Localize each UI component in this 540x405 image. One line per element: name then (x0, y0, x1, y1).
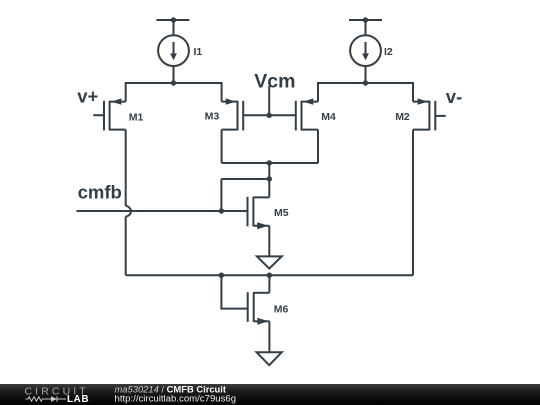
wire: right top rail (M4 drain to M2 drain) (318, 83, 413, 102)
current source I2 (350, 35, 381, 66)
svg-text:http://circuitlab.com/c79us6g: http://circuitlab.com/c79us6g (115, 393, 237, 404)
wire: M3 source down (221, 130, 223, 163)
wire: M5 drain (268, 179, 270, 197)
junction: common source node (267, 160, 272, 165)
svg-text:M4: M4 (321, 111, 336, 123)
junction: cmfb to M5 gate (219, 208, 224, 213)
current source I1 (158, 35, 189, 66)
wire: bottom rail (126, 274, 413, 276)
transistor M5 (NMOS) (248, 197, 270, 229)
wire: gate line M3-M4 (Vcm node) (243, 114, 296, 116)
power rail bar above I1 (156, 19, 189, 21)
transistor M3 (PMOS, mirrored) (222, 98, 244, 130)
svg-text:cmfb: cmfb (78, 182, 122, 203)
junction: I2 at right rail (363, 80, 368, 85)
wire: node down from common source (268, 163, 270, 179)
wire: Vcm drop (268, 86, 270, 115)
wire hop over cmfb (126, 206, 131, 216)
junction: I1 at top bar (171, 17, 176, 22)
svg-text:Vcm: Vcm (254, 71, 295, 93)
ground under M5 (257, 256, 282, 268)
svg-text:M5: M5 (274, 207, 289, 219)
ground under M6 (257, 352, 282, 365)
wire: I1 top stub (173, 20, 175, 35)
power rail bar above I2 (349, 19, 382, 21)
wire: left top rail (M1 drain to M3 drain) (126, 83, 222, 102)
wire: M6 source down (268, 321, 270, 352)
wire: horizontal to gate jog (221, 178, 269, 180)
wire: M2 source down right side (412, 130, 414, 276)
junction: bottom rail to M6 drain (267, 273, 272, 278)
svg-text:M3: M3 (205, 111, 220, 123)
wire: M3/M4 common source node (222, 162, 318, 164)
junction: I2 at top bar (363, 17, 368, 22)
svg-text:M1: M1 (129, 111, 144, 123)
logo doodle: resistor + diode (26, 396, 67, 402)
transistor M6 (NMOS) (248, 292, 270, 325)
transistor M4 (PMOS) (296, 98, 318, 130)
wire: M6 gate jog (221, 275, 247, 308)
junction: M5 drain node (267, 176, 272, 181)
footer bar (0, 384, 540, 405)
svg-text:LAB: LAB (67, 394, 89, 405)
junction: I1 at left rail (171, 80, 176, 85)
wire: I1 bottom stub (173, 66, 175, 83)
wire: I2 bottom stub (365, 66, 367, 83)
svg-text:M2: M2 (395, 111, 410, 123)
svg-text:v+: v+ (77, 86, 98, 107)
svg-text:I2: I2 (384, 46, 393, 58)
svg-text:v-: v- (446, 86, 462, 107)
wire: M4 source down (317, 130, 319, 163)
wire: cmfb line into M5 gate (77, 210, 248, 212)
wire: M1 source down (lower part) (125, 216, 127, 275)
wire: I2 top stub (365, 20, 367, 35)
junction: Vcm at gate line (267, 113, 272, 118)
svg-text:I1: I1 (194, 46, 203, 58)
transistor M2 (PMOS, mirrored) (413, 98, 446, 130)
wire: M1 source down (upper part) (125, 130, 127, 206)
wire: jog down to cmfb line (220, 179, 222, 211)
svg-text:M6: M6 (274, 303, 289, 315)
wire: M6 drain (268, 275, 270, 293)
transistor M1 (PMOS) (93, 98, 126, 130)
junction: bottom rail to M6 gate (219, 273, 224, 278)
wire: M5 source down (268, 226, 270, 257)
